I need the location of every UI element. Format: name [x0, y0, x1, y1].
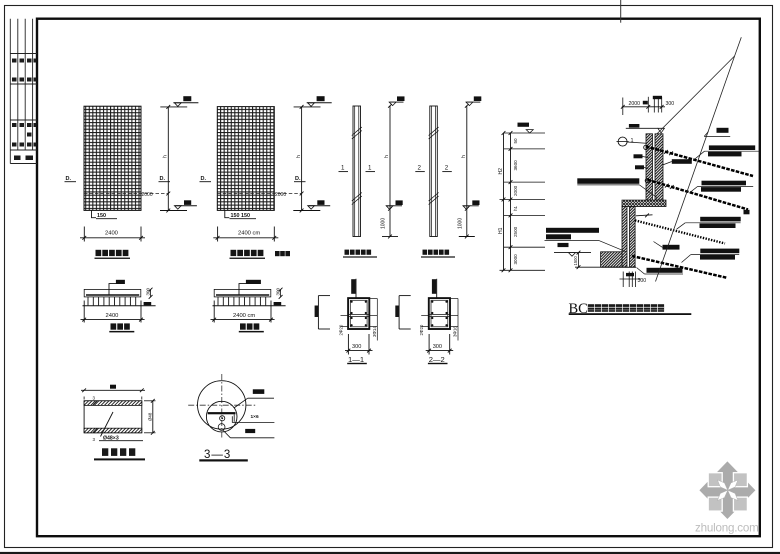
soil nail labels upper	[634, 154, 643, 158]
svg-text:3—3: 3—3	[204, 449, 231, 461]
title block strip table	[10, 19, 37, 164]
svg-text:h: h	[461, 155, 467, 158]
grid2 right dimension line h	[301, 107, 303, 211]
grid1 top ground symbol	[173, 102, 198, 104]
chain tick lines	[500, 133, 546, 270]
a-a base line	[83, 305, 156, 307]
svg-text:1000: 1000	[381, 218, 387, 229]
svg-text:D.: D.	[160, 176, 166, 182]
grid1 dashed level line	[84, 193, 168, 195]
svg-text:2Φ20: 2Φ20	[338, 324, 343, 335]
long leader branch to wall base	[656, 56, 735, 282]
foundation block hatched	[601, 252, 622, 267]
grid1 title	[96, 250, 102, 256]
bar1 dimension line	[389, 106, 391, 237]
1-1 bottom dimension 300	[347, 334, 349, 355]
bar 1 body	[353, 106, 361, 237]
grid2 bottom 150 150 labels	[225, 210, 230, 217]
pile mesh grid 2	[217, 107, 274, 211]
anchor rod 2	[648, 180, 749, 210]
M5 masonry label upper	[577, 178, 639, 184]
svg-text:D.: D.	[295, 176, 301, 182]
b-b bottom dimension 2400cm	[213, 301, 215, 323]
svg-text:2400: 2400	[106, 313, 119, 319]
3-3 bearing plate	[208, 412, 236, 414]
anchorage length label	[647, 268, 683, 273]
svg-text:3: 3	[93, 437, 96, 442]
svg-text:3600: 3600	[513, 160, 518, 171]
grid1 right dimension line h	[167, 107, 169, 211]
svg-text:300: 300	[352, 344, 361, 350]
2-2 square	[429, 298, 450, 329]
lower mini dim 1500	[578, 253, 580, 268]
3-3 leader bottom	[223, 430, 230, 437]
b-b base line	[213, 305, 286, 307]
bar2 break slashes	[429, 127, 439, 136]
b-b top leader label	[239, 284, 247, 295]
svg-text:1×6: 1×6	[251, 414, 259, 420]
bar 2 body	[430, 106, 438, 237]
3-3 leader top	[248, 397, 274, 399]
svg-text:D.: D.	[201, 176, 207, 182]
grid2 dashed level line	[217, 193, 301, 195]
bar1 title	[345, 250, 350, 255]
svg-text:1: 1	[341, 165, 345, 172]
svg-text:h: h	[163, 155, 169, 158]
b-b beam body	[214, 289, 271, 297]
svg-text:300: 300	[666, 101, 675, 107]
3-3 small rod circles	[220, 416, 225, 421]
grid2 title	[231, 250, 237, 256]
svg-text:3Φ16: 3Φ16	[453, 326, 458, 337]
anchor 3 head arrow	[636, 215, 653, 216]
svg-text:2400 cm: 2400 cm	[238, 231, 260, 237]
svg-text:2Φ20: 2Φ20	[419, 324, 424, 335]
a-a top leader label	[109, 284, 117, 295]
svg-text:150: 150	[97, 213, 106, 219]
anchor rod 3 thin grouted	[635, 220, 725, 243]
a-a beam body	[84, 289, 141, 297]
anchor label 1 two-line	[709, 145, 755, 150]
anchor head 1	[644, 145, 648, 149]
pile mesh grid 1	[84, 106, 141, 210]
svg-text:50: 50	[513, 138, 518, 144]
1-1 top leader	[355, 279, 357, 298]
watermark petals	[715, 478, 740, 503]
grid2 bottom dimension 2400cm	[217, 227, 219, 242]
chain segment labels	[498, 138, 518, 265]
svg-text:2000: 2000	[142, 192, 153, 198]
svg-text:D.: D.	[66, 176, 72, 182]
svg-text:1: 1	[368, 165, 372, 172]
anchor label 2 two-line	[702, 181, 747, 186]
svg-text:h1: h1	[513, 205, 518, 211]
b-b right mini dim	[280, 289, 282, 297]
svg-text:zhulong.com: zhulong.com	[695, 522, 759, 535]
svg-text:300: 300	[638, 278, 647, 284]
grid2 top ground symbol	[307, 102, 332, 104]
pile top level line	[626, 127, 658, 129]
svg-text:h: h	[384, 155, 390, 158]
svg-text:1—1: 1—1	[348, 355, 364, 364]
svg-text:300: 300	[276, 287, 281, 295]
anchor label 4 two-line	[700, 249, 739, 254]
2-2 top leader	[436, 279, 438, 298]
svg-text:h: h	[296, 155, 302, 158]
svg-text:300: 300	[146, 287, 151, 295]
3-3 inner circle	[206, 401, 237, 432]
a-a title	[111, 323, 117, 329]
anchor rod 1	[646, 146, 753, 176]
grid1 bottom 150 leader	[92, 210, 97, 217]
long leader branch to pile top	[657, 56, 734, 134]
svg-text:2400: 2400	[105, 231, 118, 237]
svg-text:2500: 2500	[513, 226, 518, 237]
anchor callout label	[717, 128, 729, 133]
bar2 dimension line	[466, 106, 468, 237]
upper pile wall hatched	[646, 134, 653, 200]
3-3 centerlines	[188, 404, 256, 406]
svg-text:Ø48: Ø48	[147, 412, 152, 421]
2-2 extension lines and side labels	[450, 298, 458, 300]
anchor head 2	[645, 178, 649, 182]
bottom mini chain	[620, 272, 642, 288]
anchor label 3 two-line	[700, 217, 741, 222]
2-2 left bracket	[399, 295, 411, 297]
svg-text:2: 2	[445, 165, 449, 172]
svg-text:2000: 2000	[513, 185, 518, 196]
svg-text:2000: 2000	[629, 101, 641, 107]
1-1 left bracket	[318, 295, 330, 297]
1-1 square	[348, 298, 369, 329]
a-a bottom dimension 2400	[83, 301, 85, 323]
lower ground level symbol	[558, 243, 569, 247]
grid1 bottom dimension 2400	[83, 227, 85, 242]
anchorage zone label mid	[663, 245, 680, 250]
3-3 leader middle	[232, 416, 274, 422]
2-2 bottom dimension 300	[428, 334, 430, 355]
wall bottom line	[601, 266, 636, 268]
svg-text:1000: 1000	[457, 218, 463, 229]
lower pile wall hatched	[622, 207, 627, 268]
top registration tick	[620, 0, 622, 23]
a-a dowel teeth	[88, 297, 136, 306]
svg-text:150 150: 150 150	[231, 213, 251, 219]
grid2 bottom ground symbol	[309, 205, 331, 207]
tube title	[102, 448, 108, 456]
a-a right mini dim	[150, 289, 152, 297]
b-b title	[240, 323, 246, 329]
svg-text:2—2: 2—2	[429, 355, 445, 364]
svg-text:3000: 3000	[513, 254, 518, 265]
svg-text:1: 1	[631, 138, 634, 144]
long leader stem	[735, 37, 742, 56]
grid1 bottom ground symbol	[175, 205, 197, 207]
1-1 extension lines and side labels	[369, 298, 377, 300]
svg-text:1500: 1500	[573, 256, 578, 266]
svg-text:300: 300	[433, 344, 442, 350]
svg-text:2000: 2000	[275, 192, 286, 198]
anchor rod 4	[632, 256, 727, 278]
svg-text:2: 2	[418, 165, 422, 172]
section mark circle 1	[618, 137, 627, 146]
svg-text:H2: H2	[498, 168, 504, 175]
3-3 outer circle	[198, 381, 246, 429]
tube top dimension	[83, 397, 85, 400]
svg-text:2400 cm: 2400 cm	[233, 313, 255, 319]
svg-text:3: 3	[93, 396, 96, 401]
watermark diamond	[699, 461, 755, 519]
M5 masonry label lower two-line	[546, 228, 599, 233]
watermark squares	[708, 473, 747, 511]
svg-text:H1: H1	[498, 227, 504, 234]
bar1 break slashes	[352, 127, 362, 136]
bar2 title	[423, 250, 428, 255]
top small dimension chain	[622, 106, 665, 108]
tube body	[84, 401, 142, 433]
berm slab hatched	[622, 200, 666, 206]
tube leader label	[101, 412, 114, 437]
left elevation chain lines	[503, 133, 505, 270]
title block text blobs	[12, 59, 37, 161]
tube right dimension	[152, 401, 154, 433]
svg-text:3Φ14: 3Φ14	[372, 326, 377, 337]
b-b dowel teeth	[218, 297, 266, 306]
chain top ground symbol	[518, 123, 530, 127]
page bottom edge line	[0, 552, 780, 554]
wall thickness label	[672, 159, 692, 164]
